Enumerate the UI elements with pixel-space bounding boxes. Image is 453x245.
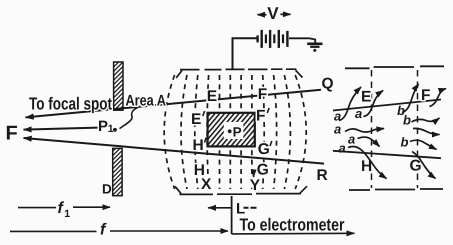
trajectory a1 [339, 87, 361, 121]
svg-text:V: V [267, 4, 279, 23]
svg-text:G: G [258, 141, 270, 158]
equipotential field region: top dashed boundary [176, 69, 302, 78]
wire battery to ground [289, 38, 315, 43]
dimension f [10, 230, 97, 232]
svg-text:F: F [421, 87, 430, 104]
svg-text:b: b [403, 113, 411, 128]
svg-text:X: X [201, 176, 212, 193]
svg-text:Y: Y [250, 177, 261, 194]
svg-text:G: G [257, 162, 269, 179]
trajectory b1b [430, 89, 447, 107]
svg-text:1: 1 [64, 208, 70, 220]
dimension L [208, 207, 232, 209]
svg-text:a: a [339, 141, 346, 156]
hatched block P (obstacle) [208, 113, 255, 147]
trajectory b1 [402, 84, 419, 113]
svg-text:F: F [6, 123, 18, 145]
ground [307, 44, 322, 47]
dimension f1 [18, 207, 56, 209]
svg-text:b: b [401, 135, 409, 150]
trajectory a4 [358, 137, 380, 146]
slit plate bottom segment [113, 148, 122, 195]
right detail: upper beam line [333, 100, 441, 111]
trajectory a3 [345, 129, 384, 132]
svg-text:D: D [102, 182, 112, 197]
equipotential field region: bottom dashed boundary [175, 186, 307, 194]
right detail: lower beam line [333, 151, 441, 158]
slit plate top segment [114, 62, 123, 110]
svg-text:a: a [334, 122, 341, 137]
svg-text:E: E [207, 88, 217, 105]
svg-text:R: R [317, 167, 328, 184]
equipotential field lines (vertical dashed, bulging at flanks) [164, 75, 306, 189]
beam line R [24, 138, 325, 164]
svg-text:P: P [233, 125, 242, 140]
beam line to P1 (middle ray) [24, 128, 99, 130]
right detail: bottom dashed boundary [349, 189, 443, 190]
svg-text:E: E [361, 89, 371, 106]
trajectory a5 [348, 146, 387, 178]
svg-text:a: a [355, 106, 362, 121]
svg-text:F: F [256, 108, 265, 125]
svg-text:To electrometer: To electrometer [240, 215, 345, 235]
right detail: top dashed boundary [345, 66, 444, 68]
trajectory a2 [364, 91, 384, 117]
svg-text:Q: Q [322, 76, 334, 93]
svg-text:H: H [193, 137, 204, 154]
svg-text:E: E [191, 111, 201, 128]
svg-text:Area A: Area A [126, 93, 167, 110]
beam line Q [26, 90, 322, 118]
right detail: boundary plane 1 (dashed vertical) [371, 70, 373, 188]
wire capacitor bottom to electrometer [231, 196, 233, 234]
svg-text:P: P [98, 118, 108, 135]
trajectory b2 [412, 118, 440, 122]
svg-text:a: a [348, 132, 355, 147]
svg-text:To focal spot: To focal spot [29, 94, 112, 114]
svg-text:1: 1 [108, 123, 114, 135]
trajectory b3 [413, 128, 440, 134]
trajectory b4 [410, 140, 437, 149]
wire battery to capacitor top plate [233, 38, 258, 69]
trajectory b5 [412, 152, 436, 179]
svg-text:F: F [258, 86, 267, 103]
label V (voltage dimension with arrows) [258, 13, 291, 15]
battery B1 [258, 30, 288, 48]
right detail: boundary plane 2 (dashed vertical) [417, 70, 419, 188]
